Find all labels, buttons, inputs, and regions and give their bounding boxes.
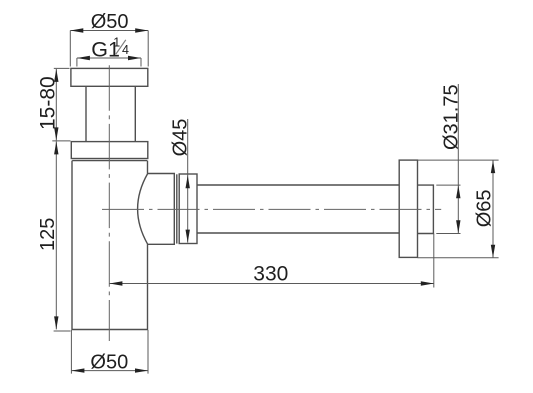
svg-text:Ø65: Ø65 <box>474 189 496 227</box>
dim 125 line <box>55 141 57 329</box>
svg-text:330: 330 <box>253 263 288 286</box>
svg-text:15-80: 15-80 <box>37 76 60 130</box>
trap nut curve <box>138 174 148 245</box>
trap body cup <box>72 161 148 330</box>
svg-text:Ø50: Ø50 <box>91 11 129 33</box>
coupling nut <box>179 174 197 244</box>
vertical centerline <box>108 65 110 341</box>
dim G1-1/4 line <box>77 57 141 59</box>
dim Ø50 bottom extension lines <box>71 330 148 374</box>
arrows Ø65 <box>491 160 495 173</box>
arrows 330 <box>109 281 122 285</box>
dim Ø31.75 extension lines <box>436 185 460 233</box>
dim G1-1/4 extension lines <box>77 58 141 67</box>
svg-text:4: 4 <box>122 43 129 57</box>
trap nut cup edges <box>148 174 175 245</box>
compression ring <box>176 174 178 243</box>
dim 125 bottom extension <box>54 330 71 332</box>
arrows 15-80 <box>54 69 58 82</box>
horizontal pipe <box>197 185 399 233</box>
arrows Ø45 <box>186 175 190 188</box>
arrows G1-1/4 <box>77 56 90 60</box>
wall flange <box>399 160 417 257</box>
svg-text:Ø31.75: Ø31.75 <box>441 84 463 150</box>
dim 330 extension line <box>433 234 435 288</box>
dim Ø65 line <box>492 160 494 258</box>
dim Ø65 extension lines <box>418 160 499 258</box>
svg-text:125: 125 <box>37 218 59 251</box>
dim 15-80 line <box>55 69 57 140</box>
dim Ø31.75 leader line <box>457 84 459 233</box>
svg-text:1: 1 <box>113 36 120 50</box>
tailpiece tube <box>86 86 135 141</box>
label G fraction slash <box>116 40 126 54</box>
arrows 125 <box>54 141 58 154</box>
top flange <box>71 68 148 86</box>
dim Ø50 bottom line <box>71 370 148 372</box>
dim 15-80 extension lines <box>52 68 70 140</box>
arrows Ø31.75 <box>456 185 460 198</box>
wall socket <box>418 185 434 233</box>
dim Ø50 top line <box>70 30 148 32</box>
horizontal pipe centerline <box>102 208 441 210</box>
svg-text:Ø50: Ø50 <box>90 352 128 374</box>
arrows Ø50 top <box>70 28 83 32</box>
arrows Ø50 bottom <box>71 368 84 372</box>
lower flange <box>71 142 148 159</box>
dim 330 line <box>109 283 433 285</box>
dim Ø50 top extension lines <box>70 31 148 67</box>
svg-text:Ø45: Ø45 <box>170 119 192 157</box>
body lip line <box>72 160 147 162</box>
dim Ø45 leader line <box>187 119 189 243</box>
